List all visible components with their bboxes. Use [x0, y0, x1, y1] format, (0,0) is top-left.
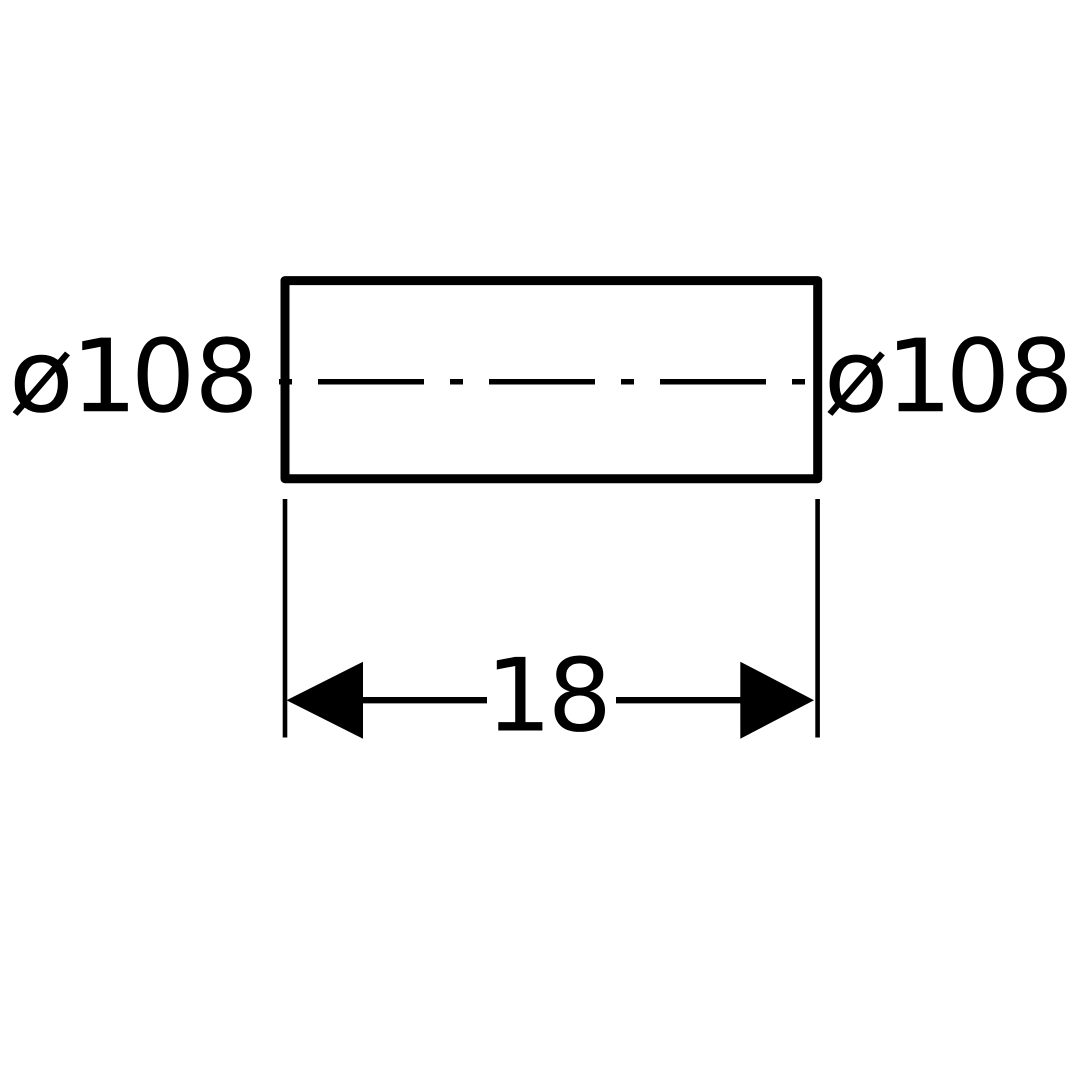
- part outline rectangle (side view of sleeve): [285, 281, 818, 479]
- dimension value 18: [497, 656, 605, 732]
- arrowhead left: [287, 662, 364, 739]
- arrowhead right: [740, 662, 814, 739]
- diameter label ø108 (left): [13, 336, 252, 416]
- dimension line right segment: [616, 697, 742, 703]
- dimension line left segment: [360, 697, 487, 703]
- diameter label ø108 (right): [827, 336, 1066, 416]
- extension line left: [283, 499, 288, 738]
- centerline (dash-dot axis): [279, 379, 805, 385]
- extension line right: [815, 499, 820, 738]
